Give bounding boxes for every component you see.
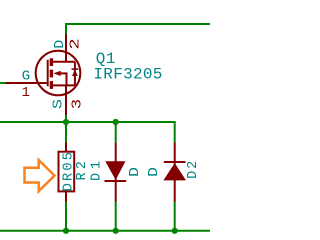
svg-text:S: S [52,99,67,109]
svg-text:3: 3 [69,99,85,109]
svg-text:DR05: DR05 [61,152,77,192]
svg-text:D: D [146,167,162,177]
svg-text:2: 2 [68,38,84,49]
svg-text:IRF3205: IRF3205 [93,66,162,84]
svg-text:1: 1 [22,85,30,101]
svg-text:D: D [53,40,68,49]
svg-text:D: D [127,167,143,177]
svg-text:G: G [22,69,30,85]
